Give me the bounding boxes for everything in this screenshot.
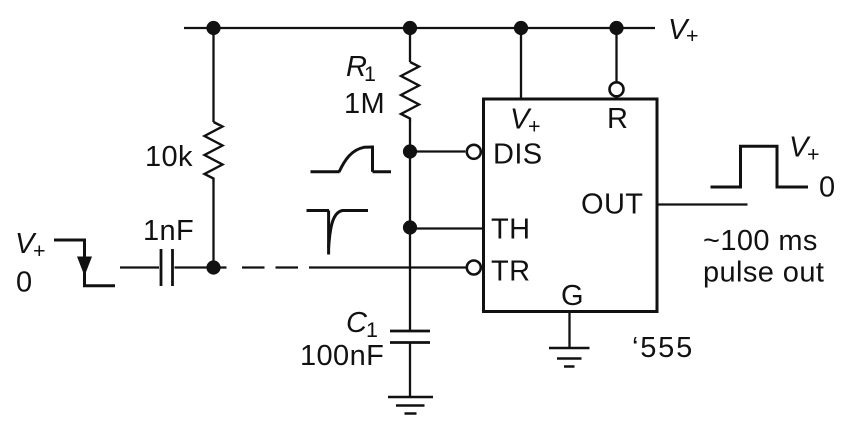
capacitor 1nF xyxy=(160,249,163,286)
wire: G pin to ground xyxy=(568,312,570,348)
svg-text:~100 ms: ~100 ms xyxy=(703,225,818,257)
ground: IC ground symbol xyxy=(549,348,590,367)
svg-text:100nF: 100nF xyxy=(300,340,384,372)
wire: rail to R1 top xyxy=(409,28,411,62)
wire: 10k bottom to input node xyxy=(212,182,214,268)
label: C1 value 100nF xyxy=(300,340,384,372)
svg-text:G: G xyxy=(561,280,584,312)
wire: R1 bottom to DIS node xyxy=(409,122,411,152)
svg-text:R: R xyxy=(607,103,628,135)
label: C1 designator xyxy=(346,307,378,342)
svg-text:+: + xyxy=(686,24,699,48)
op-amp/IC U1: 555 timer body xyxy=(484,99,658,312)
capacitor C1 xyxy=(390,330,430,333)
wire: V+ supply rail xyxy=(184,27,655,29)
wire: TH node down to C1 xyxy=(409,228,411,331)
pin circle: DIS (active-low bubble) xyxy=(467,145,481,159)
waveform: RC charge icon xyxy=(311,146,392,173)
pin label: TR (pin 2) xyxy=(491,256,530,288)
label: R1 value 1M xyxy=(344,88,385,120)
svg-text:1: 1 xyxy=(364,62,376,86)
wire: dashed link to TR xyxy=(242,266,298,268)
wire: rail to R pin bubble xyxy=(615,28,617,82)
node: junction rail/R1 xyxy=(403,21,417,35)
label: 1nF value xyxy=(143,215,194,247)
svg-text:+: + xyxy=(528,115,541,139)
svg-text:1nF: 1nF xyxy=(143,215,194,247)
waveform: output pulse xyxy=(711,146,809,187)
wire: input to 1nF xyxy=(120,266,159,268)
wire: OUT pin lead xyxy=(657,203,748,205)
pin label: G ground (pin 1) xyxy=(561,280,584,312)
pin label: V+ (pin 8) xyxy=(510,104,541,139)
label: '555 part name xyxy=(632,332,694,364)
svg-text:+: + xyxy=(807,143,820,167)
svg-text:1M: 1M xyxy=(344,88,385,120)
node: TH junction xyxy=(403,220,417,234)
waveform: input falling step xyxy=(54,240,115,286)
wire: C1 to ground xyxy=(409,343,411,397)
svg-text:+: + xyxy=(33,239,46,263)
label: R1 designator xyxy=(346,51,376,86)
resistor 10k xyxy=(205,122,223,182)
label: input 0 level xyxy=(16,267,33,299)
pin label: R reset (pin 4) xyxy=(607,103,628,135)
waveform: trigger spike icon xyxy=(307,211,369,255)
pin circle: R reset (active-low bubble) xyxy=(610,82,624,96)
label: ~100 ms annotation xyxy=(703,225,818,257)
node: DIS junction xyxy=(403,144,417,158)
pin label: TH (pin 6) xyxy=(491,214,530,246)
svg-text:pulse out: pulse out xyxy=(703,257,824,289)
pin label: DIS (pin 7) xyxy=(493,139,543,171)
svg-text:‘555: ‘555 xyxy=(632,332,694,364)
svg-text:10k: 10k xyxy=(145,141,193,173)
node: junction rail/R pin xyxy=(609,21,623,35)
wire: TR line to trigger input xyxy=(309,266,466,268)
resistor R1 1M xyxy=(401,62,419,122)
label: V+ rail xyxy=(668,14,699,48)
label: output V+ level xyxy=(789,132,820,167)
svg-text:OUT: OUT xyxy=(581,189,643,221)
label: input V+ level xyxy=(15,228,46,263)
label: pulse out annotation xyxy=(703,257,824,289)
pin circle: TR (active-low bubble) xyxy=(467,261,481,275)
wire: rail to V+ pin xyxy=(520,28,522,99)
wire: 1nF to junction xyxy=(175,266,227,268)
svg-text:1: 1 xyxy=(366,318,378,342)
wire: DIS node to DIS pin xyxy=(410,150,465,152)
svg-text:C: C xyxy=(346,307,368,339)
svg-text:DIS: DIS xyxy=(493,139,543,171)
svg-text:0: 0 xyxy=(16,267,33,299)
pin label: OUT (pin 3) xyxy=(581,189,643,221)
node: junction rail/V+ pin xyxy=(514,21,528,35)
svg-text:TH: TH xyxy=(491,214,530,246)
node: junction 10k/1nF xyxy=(206,260,220,274)
arrowhead of input step xyxy=(77,257,92,277)
svg-text:TR: TR xyxy=(491,256,530,288)
wire: rail to 10k top xyxy=(212,28,214,122)
ground: C1 ground symbol xyxy=(388,397,433,414)
wire: DIS node down to TH node xyxy=(409,152,411,228)
wire: TH node to TH pin xyxy=(410,227,483,229)
node: junction rail/10k xyxy=(206,21,220,35)
svg-text:0: 0 xyxy=(819,172,836,204)
label: 10k value xyxy=(145,141,193,173)
label: output 0 level xyxy=(819,172,836,204)
